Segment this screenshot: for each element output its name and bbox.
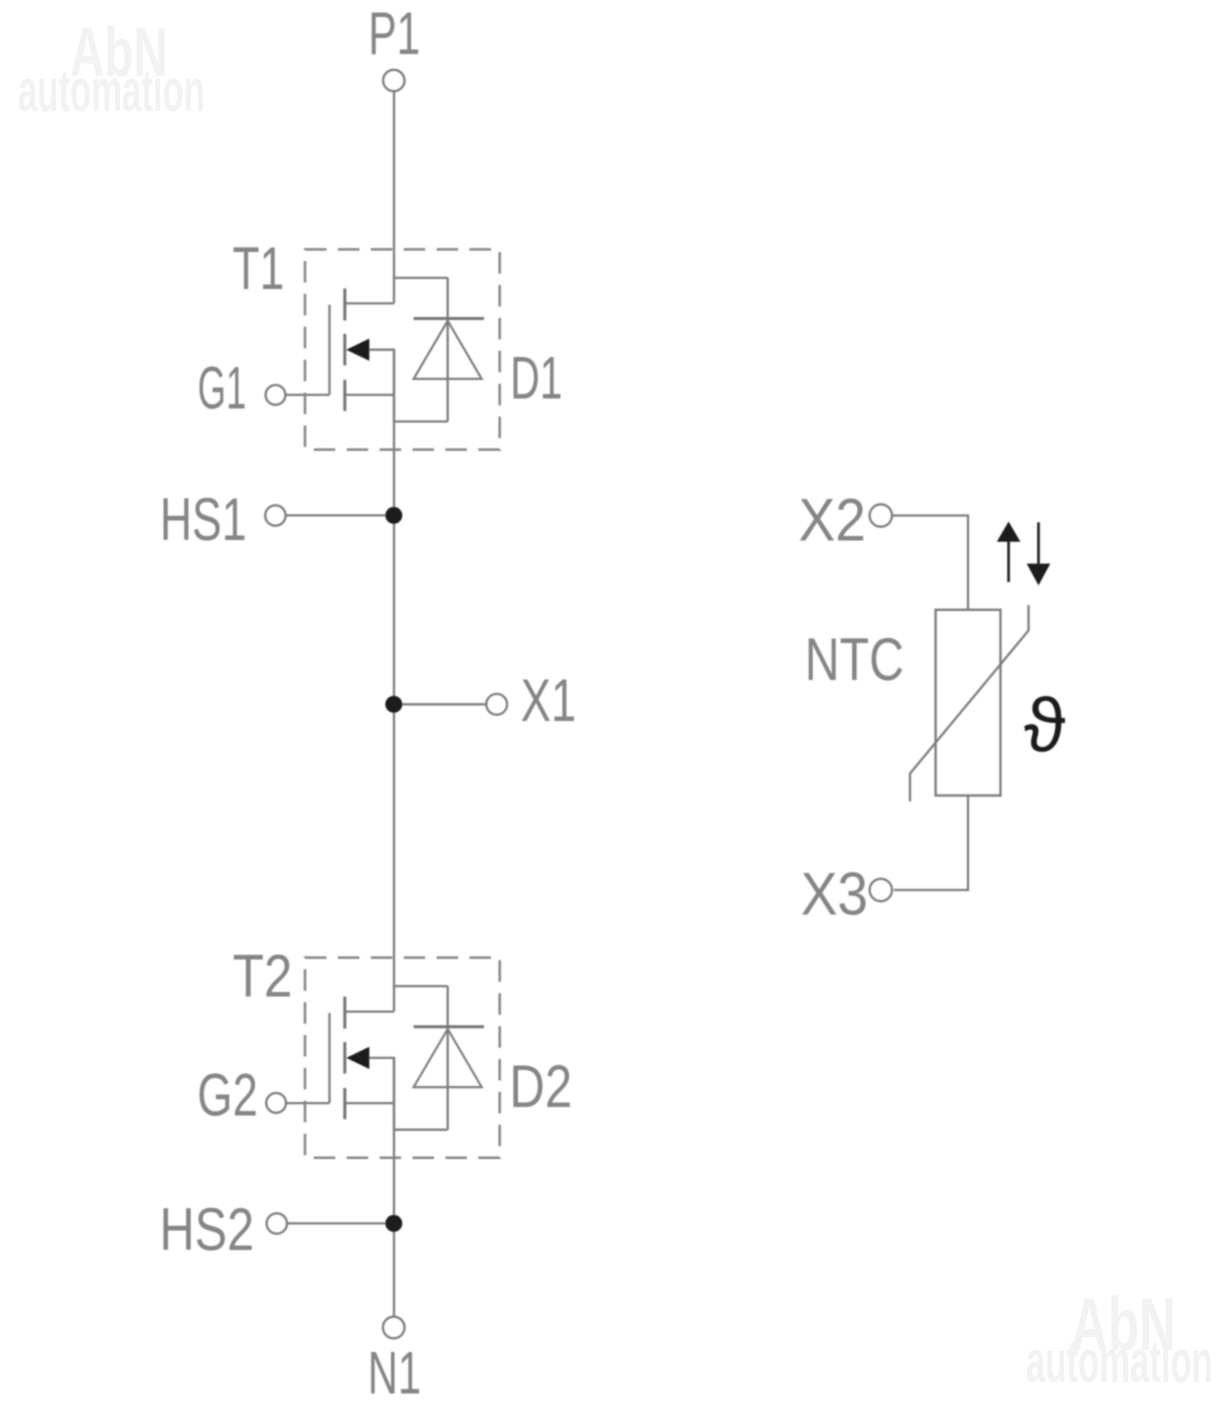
junction X1 xyxy=(385,696,402,713)
svg-text:D2: D2 xyxy=(509,1052,572,1120)
diode triangle xyxy=(414,321,482,379)
svg-text:P1: P1 xyxy=(368,1,420,68)
svg-text:N1: N1 xyxy=(368,1339,421,1405)
svg-text:X2: X2 xyxy=(799,487,866,554)
NTC diagonal xyxy=(910,605,1029,802)
svg-text:ϑ: ϑ xyxy=(1024,683,1066,768)
gate lead xyxy=(285,394,329,396)
body arrow xyxy=(346,339,369,361)
junction HS1 xyxy=(385,507,402,524)
wire source to diode anode xyxy=(394,420,448,422)
wire X1 lead xyxy=(394,703,486,705)
terminal HS1 circle xyxy=(265,505,285,525)
terminal HS2 circle xyxy=(267,1213,287,1233)
module boundary dashed box xyxy=(305,249,500,449)
watermark AbN automation bottom-right xyxy=(1026,1282,1213,1395)
terminal N1 circle xyxy=(383,1317,405,1339)
channel bar source xyxy=(343,380,346,411)
svg-text:T2: T2 xyxy=(233,942,293,1010)
wire T2 source rail through HS2 to N1 xyxy=(393,1058,395,1317)
watermark AbN automation top-left xyxy=(18,13,205,125)
svg-text:G1: G1 xyxy=(198,354,247,422)
wire NTC to X3 xyxy=(894,796,968,891)
svg-text:NTC: NTC xyxy=(805,626,904,693)
svg-text:D1: D1 xyxy=(510,345,562,412)
junction HS2 xyxy=(385,1215,402,1232)
terminal X1 circle xyxy=(486,694,507,715)
wire T1 source rail through HS1 and X1 to T2 drain xyxy=(393,350,395,1012)
wire P1 to T1 drain xyxy=(393,92,395,304)
wire body to source xyxy=(369,350,394,422)
transistor T1 with diode D1 xyxy=(285,249,499,449)
diode cathode bar xyxy=(414,317,484,320)
diode D1 vertical xyxy=(447,278,449,422)
svg-text:G2: G2 xyxy=(197,1062,257,1129)
wire HS1 lead xyxy=(286,514,394,516)
NTC body box xyxy=(936,610,1001,796)
wire source bend xyxy=(346,394,394,396)
svg-text:X1: X1 xyxy=(521,668,576,735)
terminal X2 circle xyxy=(870,504,892,526)
terminal G2 circle xyxy=(266,1093,286,1113)
svg-text:automation: automation xyxy=(1026,1329,1213,1395)
terminal X3 circle xyxy=(870,879,892,901)
current arrow down xyxy=(1037,522,1040,564)
wire drain bend xyxy=(346,302,394,304)
svg-text:X3: X3 xyxy=(801,861,868,928)
svg-text:automation: automation xyxy=(18,58,205,124)
terminal P1 circle xyxy=(383,70,404,91)
wire X2 to NTC xyxy=(892,516,968,610)
channel bar body xyxy=(343,334,346,366)
wire drain to diode cathode xyxy=(394,277,448,279)
svg-text:HS1: HS1 xyxy=(160,487,247,554)
current arrow up xyxy=(997,522,1051,586)
svg-text:HS2: HS2 xyxy=(160,1196,255,1263)
channel bar drain xyxy=(343,288,346,320)
transistor T2 with diode D2 xyxy=(285,958,499,1158)
thermistor NTC xyxy=(870,504,1029,901)
gate electrode xyxy=(328,305,330,395)
wire HS2 lead xyxy=(287,1222,394,1224)
terminal G1 circle xyxy=(266,385,286,405)
svg-text:T1: T1 xyxy=(233,236,285,303)
